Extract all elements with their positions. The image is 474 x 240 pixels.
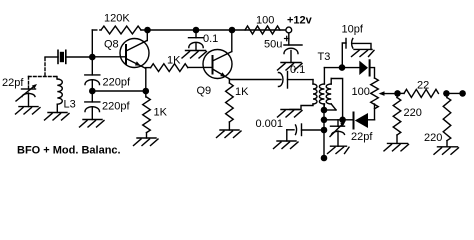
ground (under L3)	[45, 113, 70, 121]
wire (wiper node to 22 resistor)	[398, 92, 405, 94]
svg-text:0.1: 0.1	[290, 64, 305, 76]
svg-text:0.1: 0.1	[203, 33, 218, 45]
wire (to output terminal)	[446, 92, 462, 94]
svg-text:1K: 1K	[235, 86, 249, 98]
ground (T3 primary return)	[278, 110, 303, 118]
node (Q8 emitter branch)	[143, 88, 150, 95]
diode D2	[343, 104, 375, 129]
resistor 1K (Q9 emitter)	[226, 80, 234, 131]
ground (under C1)	[16, 107, 41, 114]
resistor 120K	[92, 26, 141, 57]
node (between 220pf caps)	[89, 88, 96, 95]
resistor 22	[404, 89, 438, 97]
node (column / D2 row)	[321, 117, 328, 124]
svg-text:1K: 1K	[154, 107, 168, 119]
ground (under 0.1 decoupling)	[182, 51, 207, 59]
potentiometer 100 (balance)	[371, 78, 379, 109]
node (output rail right)	[443, 90, 450, 97]
crystal Y1	[45, 50, 92, 63]
transistor Q8	[92, 30, 149, 68]
wire (center-tap column)	[323, 104, 325, 158]
node (output rail left / wiper)	[394, 90, 401, 97]
wire (1K to ground)	[146, 133, 148, 138]
ground (under left 220)	[384, 143, 409, 151]
node (Q9 collector)	[229, 27, 236, 34]
node (T3 center tap)	[321, 107, 328, 114]
svg-text:120K: 120K	[104, 13, 130, 25]
wire (Q9 emitter to output cap)	[229, 79, 281, 81]
node (output terminal)	[459, 90, 466, 97]
svg-text:0.001: 0.001	[256, 118, 284, 130]
svg-text:50u: 50u	[264, 39, 282, 51]
ground (under Q8 1K)	[134, 138, 159, 146]
resistor 1K (Q8 emitter)	[143, 97, 151, 133]
svg-text:BFO + Mod. Balanc.: BFO + Mod. Balanc.	[17, 145, 121, 157]
transistor Q9	[203, 30, 232, 79]
trimmer capacitor C2 22pf	[330, 120, 346, 146]
ground (10pf return)	[352, 49, 375, 56]
wire (dashed drop to trimmer C1)	[28, 77, 30, 87]
node A (crystal / Q8 base junction)	[89, 54, 96, 61]
svg-text:T3: T3	[318, 51, 331, 63]
wire (secondary lower leg to D2 node)	[331, 79, 342, 120]
svg-text:100: 100	[256, 15, 274, 27]
wire (center column to D2 node)	[324, 119, 343, 121]
wire (dashed horizontal to trimmer and L3)	[29, 76, 58, 78]
capacitor 50u (electrolytic)	[284, 33, 302, 63]
svg-text:220: 220	[424, 132, 442, 144]
svg-text:Q8: Q8	[104, 39, 119, 51]
wire (dashed drop from crystal left lead)	[44, 58, 46, 77]
svg-text:220pf: 220pf	[103, 77, 131, 89]
svg-text:Q9: Q9	[197, 85, 212, 97]
svg-text:22pf: 22pf	[2, 77, 24, 89]
ground (under Q9 1K)	[217, 130, 242, 138]
wire (top secondary to diode D1)	[324, 67, 359, 69]
transformer T3 primary winding	[290, 80, 317, 110]
svg-text:L3: L3	[64, 99, 76, 111]
wire (Q8 emitter vertical)	[145, 68, 147, 97]
diode D1	[359, 60, 374, 78]
svg-text:22pf: 22pf	[351, 131, 373, 143]
ground (under C2)	[328, 146, 350, 153]
svg-text:220: 220	[404, 107, 422, 119]
wiper arrow (balance pot)	[379, 91, 398, 96]
capacitor 0.1 (coupling to T3)	[279, 72, 314, 89]
svg-text:10pf: 10pf	[342, 24, 364, 36]
svg-text:22: 22	[417, 80, 429, 92]
capacitor 0.1 (decoupling)	[189, 30, 204, 51]
resistor 100 (supply)	[245, 26, 280, 34]
node (column bottom terminal)	[321, 155, 328, 162]
ground (under lower 220pf)	[80, 120, 105, 128]
resistor 220 (right)	[443, 93, 451, 146]
svg-text:+12v: +12v	[287, 15, 313, 27]
node (10pf / D1 junction)	[339, 64, 346, 71]
ground (under right 220)	[434, 147, 459, 155]
capacitor 220pf (lower)	[85, 91, 100, 120]
resistor 1K (Q8 to Q9 base)	[146, 64, 213, 72]
inductor L3	[57, 77, 62, 113]
node (column / 0.001 row)	[321, 127, 328, 134]
svg-text:1K: 1K	[167, 55, 181, 67]
resistor 220 (left)	[393, 93, 401, 143]
trimmer capacitor C1 22pf	[16, 84, 37, 107]
wire (top rail to +12v)	[141, 29, 286, 31]
capacitor 220pf (upper)	[85, 57, 100, 91]
capacitor 10pf	[342, 39, 371, 68]
svg-text:220pf: 220pf	[102, 101, 130, 113]
wire (cap midpoint to Q8 emitter)	[92, 90, 146, 92]
transformer T3 secondary winding (upper leg)	[319, 68, 324, 110]
ground (under 0.001)	[274, 141, 299, 149]
transformer T3 secondary winding (lower leg)	[324, 79, 336, 111]
node (D2 / trimmer junction)	[339, 117, 346, 124]
svg-text:100: 100	[352, 86, 370, 98]
terminal +12v	[286, 27, 292, 33]
capacitor 0.001	[287, 124, 324, 141]
node (0.1 decoupling tap)	[193, 27, 200, 34]
ground (under 50u)	[278, 63, 303, 71]
node (Q8 collector)	[144, 27, 151, 34]
